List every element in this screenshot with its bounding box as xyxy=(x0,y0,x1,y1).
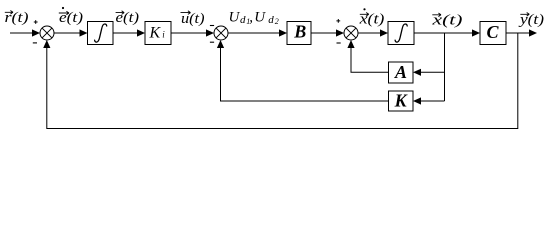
wire state tap vertical xyxy=(444,33,446,101)
arrowhead into C xyxy=(472,29,480,36)
svg-text:e(t): e(t) xyxy=(59,10,83,26)
svg-text:U: U xyxy=(254,10,266,26)
wire I1 to Ki xyxy=(113,32,138,34)
sign minus S1 xyxy=(33,42,37,44)
block label Ki xyxy=(149,24,166,41)
wire tap to K xyxy=(421,100,445,102)
label Ud1 Ud2 xyxy=(229,10,279,27)
sign minus S3 xyxy=(337,42,341,44)
arrowhead K into S2 xyxy=(217,40,224,48)
wire tap to A xyxy=(421,71,445,73)
arrowhead into A xyxy=(413,69,421,76)
wire Ki to S2 xyxy=(171,32,207,34)
wire S3 to integrator I2 xyxy=(358,32,381,34)
summing junction S2 xyxy=(214,26,228,40)
arrowhead into K xyxy=(413,97,421,104)
svg-text:2: 2 xyxy=(275,17,279,26)
arrowhead feedback into S1 xyxy=(43,40,50,48)
svg-text:C: C xyxy=(486,22,499,42)
wire S2 to B xyxy=(228,32,280,34)
block C xyxy=(480,22,506,45)
sign minus S2 bottom xyxy=(210,41,214,43)
svg-text:B: B xyxy=(293,22,306,42)
svg-text:K: K xyxy=(149,24,162,41)
sign plus S3 xyxy=(336,19,340,23)
block A xyxy=(389,62,414,83)
label x(t) xyxy=(431,13,462,29)
arrowhead A into S3 xyxy=(347,40,354,48)
label u(t) xyxy=(181,11,205,27)
wire I2 to C xyxy=(414,32,473,34)
wire A to S3 xyxy=(351,48,389,73)
arrowhead into S1 xyxy=(32,29,40,36)
label r(t) xyxy=(5,10,29,26)
arrowhead output xyxy=(529,29,537,36)
label x-dot(t) xyxy=(358,8,384,27)
arrowhead into I2 xyxy=(380,29,388,36)
block label integral I1 xyxy=(95,24,107,42)
svg-text:d: d xyxy=(268,14,274,26)
block integrator I1 xyxy=(88,22,114,45)
block Ki xyxy=(145,22,171,45)
arrowhead into B xyxy=(279,29,287,36)
arrowhead into I1 xyxy=(80,29,88,36)
svg-text:K: K xyxy=(394,91,409,111)
svg-text:i: i xyxy=(162,30,165,40)
svg-text:U: U xyxy=(229,10,241,26)
label y(t) xyxy=(518,12,544,28)
wire S1 to integrator I1 xyxy=(54,32,81,34)
wire K to S2 xyxy=(221,48,389,102)
arrowhead into S2 xyxy=(206,29,214,36)
wire C to output xyxy=(506,32,530,34)
wire output feedback loop xyxy=(47,33,518,129)
block K xyxy=(389,91,414,111)
svg-text:u(t): u(t) xyxy=(181,11,205,27)
sign plus S1 xyxy=(34,20,38,24)
block label integral I2 xyxy=(395,24,407,42)
arrowhead into S3 xyxy=(336,29,344,36)
wire input r to S1 xyxy=(10,32,33,34)
svg-text:,: , xyxy=(249,10,253,26)
svg-text:A: A xyxy=(394,62,407,82)
label e-dot(t) xyxy=(59,7,83,26)
summing junction S3 xyxy=(344,26,358,40)
sign minus S2 top xyxy=(210,25,214,27)
wire B to S3 xyxy=(311,32,337,34)
block integrator I2 xyxy=(388,22,414,45)
summing junction S1 xyxy=(40,26,54,40)
arrowhead into Ki xyxy=(137,29,145,36)
label e(t) xyxy=(116,10,140,26)
svg-text:d: d xyxy=(240,14,246,26)
block B xyxy=(287,22,311,45)
